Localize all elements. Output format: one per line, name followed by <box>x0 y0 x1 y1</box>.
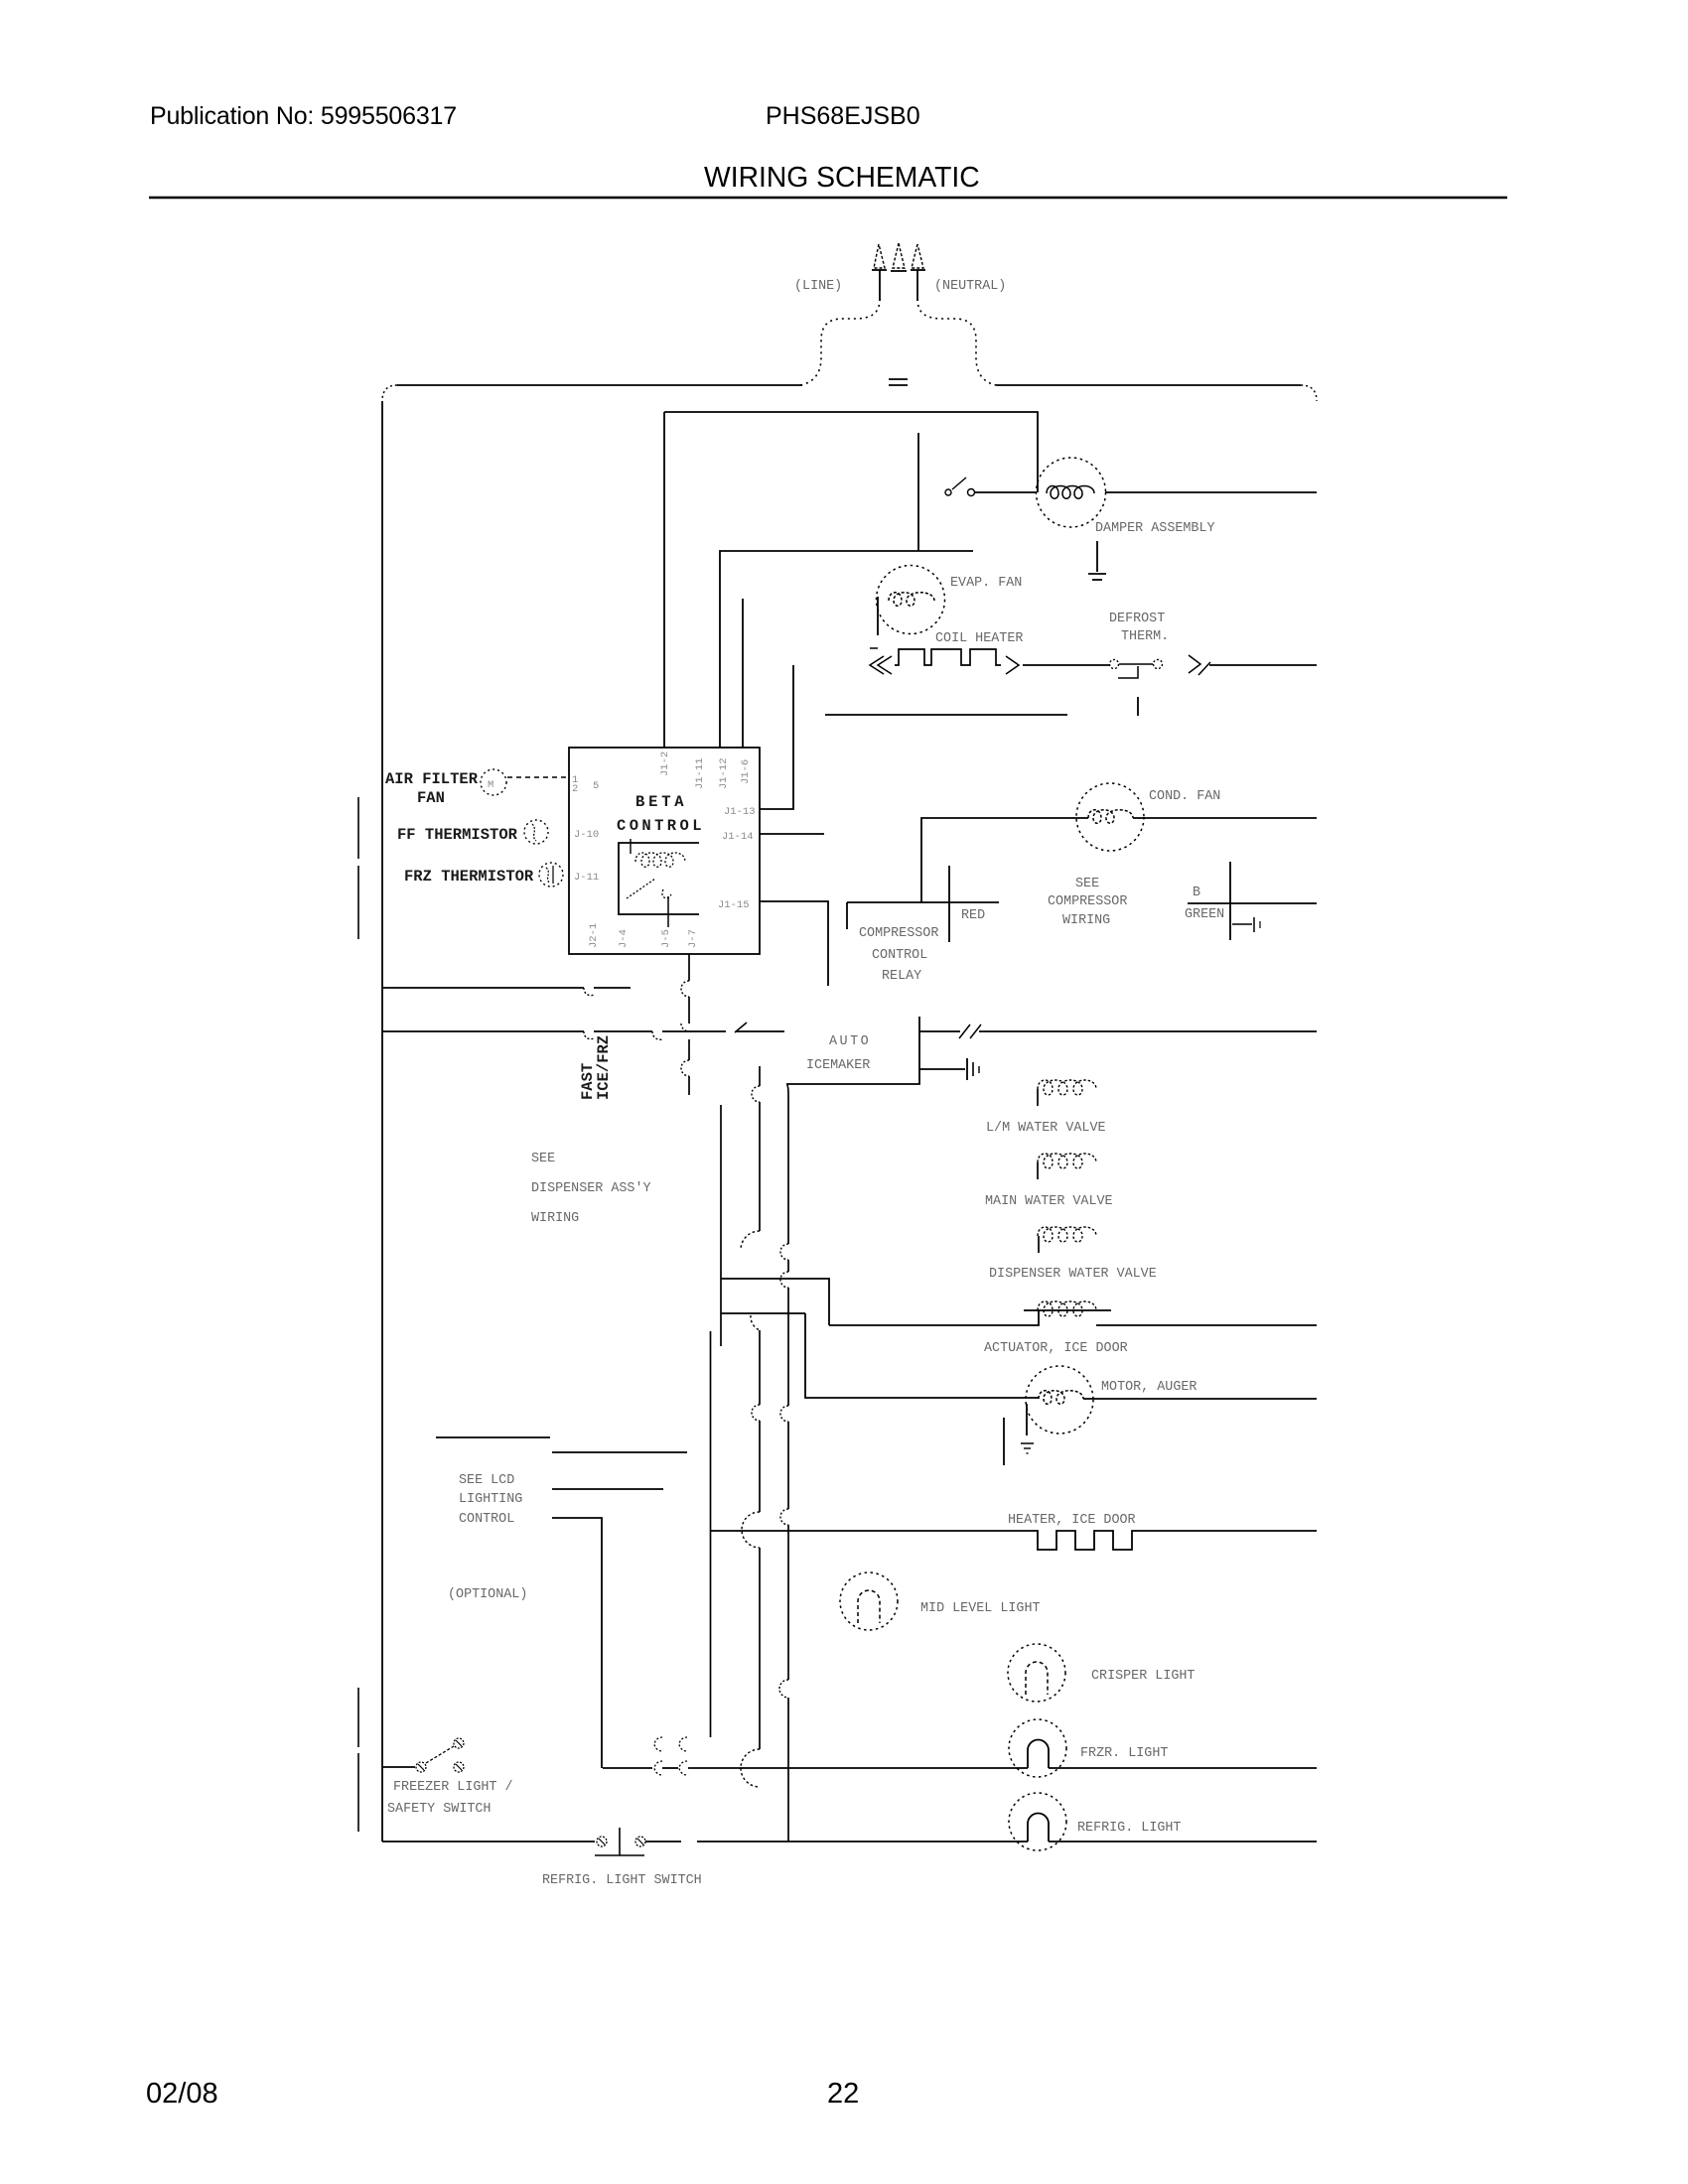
icemaker wire to right edge <box>979 1030 1317 1032</box>
svg-text:(LINE): (LINE) <box>794 279 842 294</box>
auto icemaker bracket <box>786 1017 919 1084</box>
actuator coil (dotted) <box>1038 1301 1096 1316</box>
wire neutral prong lead <box>916 270 918 301</box>
wire J1-15 to bus <box>760 901 828 986</box>
wire J1-14 stub <box>760 833 824 835</box>
wire branch level 1323 <box>721 1312 805 1314</box>
svg-text:HEATER, ICE DOOR: HEATER, ICE DOOR <box>1008 1513 1136 1528</box>
mid level light lamp (dashed) <box>840 1572 898 1630</box>
auger ground lead <box>1026 1404 1028 1435</box>
svg-text:GREEN: GREEN <box>1185 907 1224 922</box>
connector arc on upper bus <box>584 988 594 996</box>
svg-text:CONTROL: CONTROL <box>459 1512 514 1527</box>
separator stub <box>1003 1418 1005 1465</box>
lighting control stub lines <box>436 1436 550 1438</box>
svg-text:J2-1: J2-1 <box>588 923 600 948</box>
svg-text:COMPRESSOR: COMPRESSOR <box>1048 894 1127 909</box>
svg-text:FRZR. LIGHT: FRZR. LIGHT <box>1080 1746 1168 1761</box>
dispenser harness wire 1 <box>720 1105 722 1279</box>
svg-text:SAFETY SWITCH: SAFETY SWITCH <box>387 1802 491 1817</box>
frzr lamp filament <box>1028 1740 1049 1768</box>
svg-text:REFRIG. LIGHT: REFRIG. LIGHT <box>1077 1821 1181 1836</box>
L/M water valve coil (dotted) <box>1038 1080 1096 1095</box>
svg-text:MOTOR, AUGER: MOTOR, AUGER <box>1101 1380 1196 1395</box>
svg-text:J-4: J-4 <box>618 929 630 948</box>
wire evap fan to defrost heater <box>877 597 879 635</box>
freezer safety switch wire <box>382 1766 415 1768</box>
icemaker ground branch <box>919 1068 965 1070</box>
beta internal switch output wire <box>667 896 669 927</box>
svg-text:J1-12: J1-12 <box>718 757 730 789</box>
dispenser harness wire 2 <box>759 1066 761 1086</box>
wire evap fan branch <box>742 599 744 748</box>
refrig light lamp (dashed circle) <box>1009 1793 1066 1850</box>
svg-text:EVAP. FAN: EVAP. FAN <box>950 576 1022 591</box>
plug bell outline right (dashed) <box>917 299 996 385</box>
air filter fan motor circle (dotted) <box>481 769 506 795</box>
defrost thermostat arrow and break <box>1189 655 1200 673</box>
wire cond fan to right edge <box>1133 817 1317 819</box>
break slashes <box>959 1024 970 1038</box>
defrost heater right arrow <box>1006 656 1019 674</box>
wire beta J1-2 riser <box>663 412 665 748</box>
svg-text:WIRING: WIRING <box>531 1211 579 1226</box>
dispenser water valve coil (dotted) <box>1038 1227 1096 1242</box>
svg-text:WIRING SCHEMATIC: WIRING SCHEMATIC <box>704 161 980 193</box>
svg-text:(NEUTRAL): (NEUTRAL) <box>934 279 1006 294</box>
svg-text:DISPENSER WATER VALVE: DISPENSER WATER VALVE <box>989 1267 1157 1282</box>
svg-text:ICE/FRZ: ICE/FRZ <box>595 1035 613 1100</box>
freezer safety switch contacts <box>416 1762 426 1772</box>
svg-text:LIGHTING: LIGHTING <box>459 1492 522 1507</box>
svg-text:M: M <box>488 779 493 791</box>
main water valve coil (dotted) <box>1038 1154 1096 1168</box>
svg-text:COIL HEATER: COIL HEATER <box>935 631 1023 646</box>
damper coil turns <box>1047 486 1094 499</box>
svg-text:J1-2: J1-2 <box>659 751 671 776</box>
svg-text:DISPENSER ASS'Y: DISPENSER ASS'Y <box>531 1181 651 1196</box>
svg-text:AUTO: AUTO <box>829 1034 871 1049</box>
wire line prong lead <box>879 270 881 301</box>
svg-text:22: 22 <box>827 2078 859 2110</box>
svg-text:MAIN WATER VALVE: MAIN WATER VALVE <box>985 1194 1113 1209</box>
defrost thermostat contacts <box>1110 660 1119 669</box>
svg-text:FRZ THERMISTOR: FRZ THERMISTOR <box>404 868 534 886</box>
icemaker ground symbol <box>966 1058 968 1080</box>
beta internal switch lever (dotted) <box>627 879 655 898</box>
left margin tick 3 <box>357 1688 359 1747</box>
heater ice door wire and element <box>711 1531 1317 1550</box>
defrost heater element (square wave) <box>895 649 1001 665</box>
svg-text:J-7: J-7 <box>687 929 699 948</box>
svg-text:B: B <box>1193 886 1200 900</box>
wire damper to right edge <box>1105 491 1317 493</box>
wire branch level 1288 <box>721 1279 829 1325</box>
main box top edge left segment <box>397 384 802 386</box>
svg-text:Publication No: 5995506317: Publication No: 5995506317 <box>150 102 457 130</box>
svg-text:FAN: FAN <box>417 789 445 807</box>
actuator wire right <box>1096 1324 1317 1326</box>
main box left edge <box>381 401 383 1842</box>
main valve lead <box>1037 1162 1039 1179</box>
svg-text:ICEMAKER: ICEMAKER <box>806 1058 870 1073</box>
svg-text:BETA: BETA <box>635 793 687 811</box>
svg-text:ACTUATOR, ICE DOOR: ACTUATOR, ICE DOOR <box>984 1341 1128 1356</box>
FRZ thermistor sensor circle (dotted) <box>539 863 563 887</box>
green ground connector <box>1232 923 1252 925</box>
FF thermistor sensor circle (dotted) <box>524 820 548 844</box>
svg-text:J1-14: J1-14 <box>722 831 754 843</box>
svg-text:FF THERMISTOR: FF THERMISTOR <box>397 826 518 844</box>
refrig light wire right <box>645 1841 681 1843</box>
green wire vertical <box>1229 862 1231 940</box>
wire neutral bus upper <box>720 551 973 748</box>
svg-text:SEE: SEE <box>1075 877 1099 891</box>
auger ground symbol <box>1021 1442 1034 1444</box>
wire defrost to right edge <box>1209 664 1317 666</box>
svg-text:COND. FAN: COND. FAN <box>1149 789 1220 804</box>
damper switch <box>945 489 951 495</box>
wire switch to damper coil <box>975 491 1037 493</box>
dispenser valve lead <box>1038 1236 1040 1253</box>
refrig light switch contacts <box>597 1837 607 1846</box>
bus line upper <box>382 987 584 989</box>
main box top edge right segment <box>996 384 1301 386</box>
title underline rule <box>149 197 1507 200</box>
plug prong NEUTRAL (dashed blade) <box>912 244 923 268</box>
wire beta J2 pin down with connector arcs <box>688 954 690 981</box>
svg-text:5: 5 <box>593 780 599 792</box>
svg-text:J-10: J-10 <box>574 829 599 841</box>
svg-text:02/08: 02/08 <box>146 2078 218 2110</box>
left margin tick 4 <box>357 1753 359 1832</box>
svg-text:PHS68EJSB0: PHS68EJSB0 <box>766 102 920 130</box>
lighting control wire down <box>552 1518 602 1768</box>
wire cond fan feed <box>921 818 1088 902</box>
wire free vertical near plug <box>917 433 919 551</box>
bus line lower <box>382 1030 584 1032</box>
beta internal coil lead <box>630 839 632 854</box>
svg-text:J1-13: J1-13 <box>724 806 756 818</box>
main box top-right corner (dashed arc) <box>1301 385 1317 401</box>
svg-text:WIRING: WIRING <box>1062 913 1110 928</box>
refrig switch plunger <box>619 1828 621 1855</box>
motor auger circle (dashed) <box>1026 1366 1093 1433</box>
svg-text:COMPRESSOR: COMPRESSOR <box>859 926 938 941</box>
damper ground symbol <box>1088 573 1106 575</box>
svg-text:DEFROST: DEFROST <box>1109 612 1165 626</box>
defrost heater left arrows <box>870 647 878 649</box>
svg-text:SEE: SEE <box>531 1152 555 1166</box>
svg-text:CRISPER LIGHT: CRISPER LIGHT <box>1091 1669 1195 1684</box>
plug prong LINE (dashed blade) <box>874 244 885 268</box>
svg-text:RELAY: RELAY <box>882 969 921 984</box>
svg-text:DAMPER ASSEMBLY: DAMPER ASSEMBLY <box>1095 521 1215 536</box>
refrig lamp filament <box>1028 1814 1049 1843</box>
cond fan motor circle (dashed) <box>1076 783 1144 851</box>
svg-text:CONTROL: CONTROL <box>617 817 705 835</box>
svg-text:J1-11: J1-11 <box>694 757 706 789</box>
svg-text:FREEZER LIGHT /: FREEZER LIGHT / <box>393 1780 513 1795</box>
wire stub below defrost <box>1137 697 1139 716</box>
svg-text:REFRIG. LIGHT SWITCH: REFRIG. LIGHT SWITCH <box>542 1873 702 1888</box>
beta internal relay box <box>619 843 699 914</box>
evap fan coil turns <box>889 593 934 607</box>
svg-text:THERM.: THERM. <box>1121 629 1169 644</box>
wire heater to defrost thermostat <box>1023 664 1110 666</box>
damper ground lead <box>1096 541 1098 572</box>
break arrow on lower bus <box>735 1023 747 1032</box>
svg-text:AIR FILTER: AIR FILTER <box>385 770 479 788</box>
main box top-left corner (dashed arc) <box>382 385 397 401</box>
svg-text:J1-15: J1-15 <box>718 899 750 911</box>
svg-text:(OPTIONAL): (OPTIONAL) <box>448 1587 527 1602</box>
svg-text:J-11: J-11 <box>574 872 599 884</box>
auger feed wire <box>805 1313 1039 1398</box>
wire horizontal mid line <box>825 714 1067 716</box>
actuator coil bar <box>1024 1309 1111 1311</box>
compressor control relay contact bar <box>847 901 999 903</box>
svg-text:CONTROL: CONTROL <box>872 948 927 963</box>
plug prong GROUND (dashed blade) <box>893 243 905 268</box>
actuator feed wire <box>829 1310 1039 1325</box>
connector arcs pairs near 660/688 <box>654 1737 662 1751</box>
green wire horizontal to right edge <box>1188 902 1317 904</box>
icemaker wire to break <box>919 1030 960 1032</box>
auger coil turns <box>1039 1391 1083 1405</box>
svg-text:2: 2 <box>572 783 578 795</box>
beta internal relay coil (dotted) <box>635 853 685 867</box>
left margin tick 1 <box>357 797 359 859</box>
frzr light wire <box>603 1767 652 1769</box>
L/M valve lead <box>1037 1089 1039 1106</box>
svg-text:MID LEVEL LIGHT: MID LEVEL LIGHT <box>920 1601 1041 1616</box>
bottom wire to refrig switch <box>382 1841 595 1843</box>
svg-text:J1-6: J1-6 <box>740 759 752 784</box>
svg-text:RED: RED <box>961 908 985 923</box>
damper assembly coil circle (dashed) <box>1037 458 1106 527</box>
freezer safety switch lever (dotted) <box>426 1746 454 1763</box>
wire J1-13 riser <box>760 665 793 809</box>
defrost thermostat bracket <box>1118 666 1138 678</box>
frzr light lamp (dashed circle) <box>1009 1719 1066 1777</box>
equals mark under plug <box>889 378 908 380</box>
dispenser harness wire 1 lower <box>710 1331 712 1531</box>
relay crossing contact <box>948 866 950 942</box>
prong base bars <box>872 269 887 271</box>
wire from top edge down to damper line <box>664 412 1038 492</box>
dispenser harness wire 3 <box>786 1084 788 1095</box>
left margin tick 2 <box>357 866 359 939</box>
connector arcs on lower bus <box>584 1031 594 1039</box>
BETA CONTROL board box <box>569 748 760 954</box>
svg-text:J-5: J-5 <box>660 929 672 948</box>
svg-text:SEE LCD: SEE LCD <box>459 1473 514 1488</box>
auger wire right <box>1083 1398 1317 1400</box>
crisper light lamp (dashed) <box>1008 1644 1065 1702</box>
cond fan coil turns <box>1088 810 1133 824</box>
evap fan motor circle (dashed) <box>877 566 945 634</box>
plug bell outline left (dashed) <box>800 299 880 385</box>
dashed wire fan to beta <box>507 776 569 778</box>
svg-text:L/M WATER VALVE: L/M WATER VALVE <box>986 1121 1106 1136</box>
